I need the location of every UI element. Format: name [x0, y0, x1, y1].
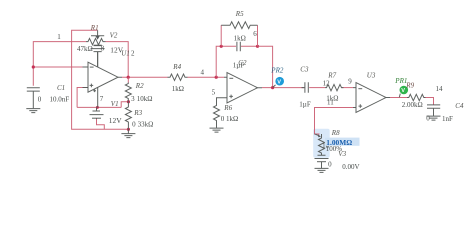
svg-text:5: 5 — [212, 89, 216, 97]
wire R1 right to output node — [106, 42, 129, 77]
junction — [220, 45, 223, 48]
svg-text:R4: R4 — [172, 63, 181, 71]
svg-text:47kΩ: 47kΩ — [77, 45, 93, 53]
svg-text:6: 6 — [253, 30, 257, 38]
resistor R5 — [221, 22, 257, 29]
svg-text:1kΩ: 1kΩ — [172, 85, 184, 93]
battery V1 — [90, 107, 104, 119]
ground under R6 — [210, 128, 224, 132]
svg-text:C4: C4 — [455, 102, 464, 110]
junction — [271, 86, 274, 89]
junction — [127, 100, 130, 103]
wire V1 top rail — [77, 106, 121, 108]
junction — [256, 45, 259, 48]
svg-text:V3: V3 — [338, 150, 346, 158]
resistor R2 — [127, 77, 129, 82]
wire up to C2 branch — [216, 46, 236, 77]
svg-text:8: 8 — [101, 45, 105, 53]
wire U1 + input — [77, 88, 88, 108]
resistor R7 — [325, 84, 344, 90]
svg-text:0: 0 — [132, 120, 136, 128]
svg-text:R9: R9 — [405, 82, 414, 90]
ground under R3 — [121, 129, 135, 137]
op-amp U3 — [353, 83, 390, 113]
svg-text:2.00kΩ: 2.00kΩ — [402, 101, 423, 109]
svg-text:0: 0 — [38, 96, 42, 104]
junction — [127, 76, 130, 79]
svg-text:4: 4 — [201, 69, 205, 77]
junction — [32, 65, 35, 68]
svg-text:3: 3 — [131, 95, 135, 103]
svg-text:V: V — [401, 88, 405, 94]
svg-text:V: V — [277, 79, 281, 85]
svg-text:7: 7 — [100, 95, 104, 103]
resistor R3 — [125, 102, 131, 130]
resistor R9 — [407, 94, 426, 100]
svg-text:1µF: 1µF — [233, 61, 245, 69]
wire R2-R3 feedback — [121, 102, 128, 108]
svg-text:12V: 12V — [109, 116, 122, 125]
wire R7 to U3 — [342, 87, 354, 89]
probe PR2 — [273, 85, 276, 88]
capacitor C4 — [427, 105, 440, 116]
op-amp U2 — [217, 73, 263, 105]
svg-text:9: 9 — [348, 78, 352, 86]
svg-text:1: 1 — [57, 33, 61, 41]
junction — [215, 76, 218, 79]
capacitor C1 — [27, 88, 40, 109]
wire to U1 inverting input — [33, 66, 82, 68]
svg-text:0: 0 — [221, 115, 225, 123]
wire R9 to C4 — [424, 98, 434, 105]
wire V1 bottom step — [97, 119, 105, 130]
svg-text:C3: C3 — [300, 65, 309, 73]
resistor R4 — [168, 74, 188, 80]
svg-text:1nF: 1nF — [442, 115, 453, 123]
svg-text:2: 2 — [131, 50, 135, 58]
svg-text:0.00V: 0.00V — [342, 163, 359, 171]
resistor R6 — [214, 104, 220, 128]
highlight box around R8 — [313, 129, 330, 158]
R8 value box — [325, 138, 360, 146]
svg-text:U1: U1 — [121, 50, 130, 58]
svg-text:V1: V1 — [111, 100, 119, 108]
wire net1 top — [33, 42, 86, 86]
probe PR1 — [399, 94, 400, 98]
svg-text:R1: R1 — [90, 24, 99, 32]
capacitor C2 — [237, 42, 240, 51]
svg-text:1kΩ: 1kΩ — [326, 95, 338, 103]
wire R4 to U2 — [188, 76, 225, 78]
svg-text:R5: R5 — [235, 10, 244, 18]
svg-text:C1: C1 — [57, 84, 65, 92]
wire R1 wiper — [72, 30, 129, 129]
battery V3 — [315, 155, 329, 162]
svg-text:1kΩ: 1kΩ — [226, 115, 238, 123]
svg-text:V2: V2 — [110, 32, 118, 40]
svg-text:1kΩ: 1kΩ — [234, 35, 246, 43]
wire C3 to R7 — [309, 87, 325, 89]
svg-text:R6: R6 — [223, 104, 232, 112]
ground under C1 — [26, 109, 40, 113]
svg-text:R2: R2 — [135, 82, 144, 90]
junction — [127, 128, 130, 131]
svg-text:R7: R7 — [327, 72, 336, 80]
svg-text:0: 0 — [328, 161, 332, 169]
junction — [96, 106, 99, 109]
ground under C4 — [427, 116, 441, 120]
svg-text:10.0nF: 10.0nF — [50, 96, 70, 104]
wire U3 + input — [315, 108, 354, 135]
potentiometer R8 — [315, 134, 319, 136]
svg-text:R3: R3 — [133, 109, 142, 117]
capacitor C3 — [302, 82, 309, 93]
potentiometer R1 — [86, 38, 106, 44]
svg-text:33kΩ: 33kΩ — [138, 120, 154, 128]
svg-text:PR2: PR2 — [270, 67, 284, 75]
wire U3 output to R9 — [390, 97, 407, 99]
wire R5 left vertical — [220, 25, 222, 46]
ground under V3 — [315, 168, 329, 172]
op-amp U1 — [83, 52, 123, 107]
svg-text:R8: R8 — [331, 129, 340, 137]
svg-text:14: 14 — [436, 85, 444, 93]
svg-text:U3: U3 — [367, 72, 376, 80]
wire C2 right — [241, 45, 258, 47]
wire node6 to output — [258, 46, 273, 87]
wire U1 output row — [122, 76, 168, 78]
svg-text:1µF: 1µF — [299, 100, 311, 108]
wire R5 right vertical — [257, 25, 259, 46]
svg-text:10kΩ: 10kΩ — [137, 95, 153, 103]
wire U2 output row — [262, 87, 304, 89]
battery V2 — [91, 45, 105, 67]
